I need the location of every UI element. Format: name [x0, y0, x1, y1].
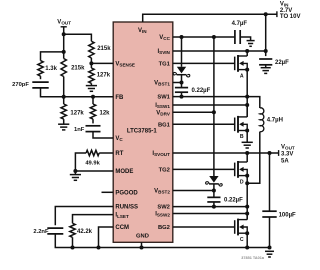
wire pin TG1 to switch A gate [173, 62, 235, 64]
svg-text:37851 TA01a: 37851 TA01a [241, 256, 265, 260]
transistor C source stub [238, 232, 247, 234]
transistor C body arrow [239, 225, 244, 230]
transistor A body-source junction [245, 68, 249, 72]
wire MODE node to ground [74, 171, 76, 175]
wire 42.2k to ground rail [72, 237, 74, 247]
wire switch B source to ground [246, 131, 248, 143]
wire VOUT branch into 215k middle [63, 52, 65, 59]
transistor B gate bar [234, 118, 236, 132]
capacitor 0.22uF (BST1) [175, 87, 188, 89]
svg-text:RUN/SS: RUN/SS [115, 205, 138, 211]
resistor 42.2k [70, 223, 75, 237]
ground (FB divider) [58, 123, 69, 125]
svg-text:VIN: VIN [138, 28, 147, 34]
wire pin RT to 49.9k [99, 152, 113, 154]
junction 1.3k branch [62, 50, 66, 54]
wire switch B drain to ISSW1 junction [246, 105, 248, 117]
svg-text:SW1: SW1 [157, 95, 170, 101]
wire 270pF to FB node [41, 88, 64, 97]
transistor B body-source link [243, 124, 247, 130]
wire pin CCM to ground rail [99, 227, 114, 248]
svg-text:4.7µH: 4.7µH [267, 118, 283, 124]
wire pin SW2 to D-C leg [173, 206, 247, 208]
svg-text:FB: FB [115, 95, 124, 101]
svg-text:BG1: BG1 [158, 122, 171, 128]
wire pin VBST2 to node [173, 190, 214, 192]
transistor A drain stub [238, 55, 247, 57]
wire 0.22uF BST2 to SW2 [213, 202, 215, 207]
transistor C gate bar [234, 220, 236, 234]
svg-text:VSENSE: VSENSE [115, 62, 135, 68]
ground (rail end) [265, 250, 274, 252]
capacitor 1nF [86, 125, 101, 127]
wire 22uF to ground [265, 65, 267, 68]
svg-text:LTC3785-1: LTC3785-1 [127, 129, 158, 135]
junction SW1 on A-B leg [245, 95, 249, 99]
svg-text:1.3k: 1.3k [45, 66, 57, 72]
wire switch A drain to ISVIN rail [246, 51, 248, 56]
junction VBST2 node [212, 189, 216, 193]
transistor C body-source junction [245, 231, 249, 235]
junction GND pin on rail [140, 246, 144, 250]
wire pin VCC to 4.7uF [173, 36, 235, 38]
junction CCM on ground rail [97, 246, 101, 250]
wire 127k to ground [90, 83, 92, 85]
svg-text:RT: RT [115, 151, 123, 157]
junction switch C source on ground rail [245, 246, 249, 250]
resistor 12k [90, 104, 95, 119]
transistor D drain stub [238, 161, 247, 163]
wire VIN vertical down to ISVIN rail [265, 14, 267, 51]
wire 4.7uF to ground [240, 37, 250, 41]
wire 12k to 1nF [92, 119, 94, 123]
diode D2 (BST2 Schottky) [209, 176, 218, 183]
wire FB node to pin FB [64, 96, 113, 98]
resistor 127k (FB to ground) [61, 104, 66, 119]
transistor C body-source link [243, 227, 247, 233]
svg-text:MODE: MODE [115, 169, 133, 175]
resistor 1.3k [38, 61, 43, 77]
svg-text:TG1: TG1 [159, 62, 171, 68]
junction rail end at 100uF [268, 246, 272, 250]
transistor C drain stub [238, 219, 247, 221]
wire inductor bottom down to SW2 link [247, 132, 260, 184]
ground (RT/MODE) [70, 174, 81, 176]
wire VCC to BST1 diode anode [181, 37, 183, 67]
wire 0.22uF BST1 to SW1 [181, 92, 183, 96]
wire switch A source down to switch B drain [246, 70, 248, 117]
wire switch C source to ground rail [246, 233, 248, 247]
node VIN terminal tick [276, 11, 278, 17]
wire switch C drain to ISSW2 junction [246, 214, 248, 220]
wire FB node into 127k [63, 97, 65, 104]
wire pin GND down to rail [141, 242, 143, 247]
transistor B channel bar [237, 116, 239, 133]
junction inductor to SW2 leg [245, 181, 249, 185]
transistor D body arrow [239, 167, 244, 172]
svg-text:ISSW1: ISSW1 [155, 103, 170, 109]
svg-text:VDRV: VDRV [156, 110, 171, 116]
wire pin MODE to ground node [75, 170, 113, 172]
transistor A body arrow [239, 61, 244, 66]
wire VOUT vertical to 1.3k branch [63, 34, 65, 52]
diode D1 (BST1 Schottky) [177, 67, 186, 74]
node VOUT terminal (top left) [61, 26, 67, 28]
svg-text:VIN: VIN [280, 2, 289, 8]
wire pin BG2 to switch C gate [173, 226, 235, 228]
wire VSENSE node to pin VSENSE [91, 62, 113, 64]
wire pin RUN/SS to 2.2nF [55, 207, 113, 226]
svg-text:VOUT: VOUT [57, 19, 71, 25]
svg-text:C: C [240, 237, 244, 243]
svg-text:100µF: 100µF [279, 212, 296, 218]
junction VCC/VDRV branch [212, 35, 216, 39]
svg-text:VBST1: VBST1 [154, 81, 170, 87]
ground (switch B source) [242, 141, 253, 143]
svg-text:PGOOD: PGOOD [115, 190, 138, 196]
wire 1nF to pin VC [93, 132, 113, 138]
transistor A gate bar [234, 57, 236, 71]
wire 1.3k to 270pF [40, 76, 42, 79]
svg-text:SW2: SW2 [157, 205, 170, 211]
junction VCC/BST1 diode branch [180, 35, 184, 39]
transistor B drain stub [238, 116, 247, 118]
wire 2.2nF to ground rail [55, 234, 72, 248]
ground (VSENSE divider) [86, 85, 97, 87]
junction VOUT/215k branch [62, 32, 66, 36]
wire pin TG2 to switch D gate [173, 168, 235, 170]
svg-text:5A: 5A [281, 158, 289, 164]
wire diode D2 to VBST2 node [213, 184, 215, 197]
svg-text:A: A [240, 73, 244, 79]
wire pin VDRV to VCC leg [173, 111, 214, 113]
svg-text:BG2: BG2 [158, 225, 170, 231]
wire FB node into 12k [92, 97, 94, 104]
svg-text:VOUT: VOUT [281, 144, 295, 150]
svg-text:4.7µF: 4.7µF [232, 21, 248, 27]
transistor A body-source link [243, 63, 247, 69]
transistor A source stub [238, 69, 247, 71]
svg-text:215k: 215k [97, 46, 111, 52]
transistor B body-source junction [245, 129, 249, 133]
node VOUT terminal tick (right) [278, 150, 280, 156]
transistor C channel bar [237, 219, 239, 236]
svg-text:42.2k: 42.2k [77, 229, 93, 235]
resistor 215k (middle, VOUT to FB) [61, 59, 66, 77]
wire pin ISVOUT to VOUT terminal [173, 152, 279, 154]
wire VOUT terminal down to divider [63, 27, 65, 34]
svg-text:1nF: 1nF [74, 127, 85, 133]
transistor D gate bar [234, 163, 236, 177]
wire pin ISVIN to VIN node [173, 50, 266, 52]
junction ISSW2 on D-C leg [245, 212, 249, 216]
svg-text:D: D [240, 179, 244, 185]
svg-text:127k: 127k [97, 72, 111, 78]
capacitor 0.22uF (BST2) [207, 196, 220, 198]
junction FB node right (12k branch) [91, 95, 95, 99]
wire pin ISSW2 to D-C leg [173, 213, 247, 215]
svg-text:0.22µF: 0.22µF [224, 198, 243, 204]
ground (22uF) [261, 67, 271, 69]
capacitor 270pF [32, 81, 48, 83]
wire 127k FB to ground [63, 119, 65, 124]
svg-text:215k: 215k [71, 65, 85, 71]
capacitor 2.2nF [47, 227, 63, 229]
wire diode D1 to VBST1 node [181, 75, 183, 88]
wire switch D drain to VOUT rail [246, 153, 248, 162]
resistor 49.9k [86, 150, 99, 155]
wire branch to 1.3k [41, 52, 64, 61]
junction 0.22uF on SW1 rail [180, 95, 184, 99]
svg-text:VBST2: VBST2 [154, 189, 170, 195]
svg-text:12k: 12k [100, 110, 111, 116]
svg-text:ISSW2: ISSW2 [155, 212, 170, 218]
svg-text:0.22µF: 0.22µF [192, 88, 211, 94]
svg-text:TO 10V: TO 10V [280, 14, 301, 20]
svg-text:CCM: CCM [115, 225, 129, 231]
junction VDRV on VCC leg [212, 110, 216, 114]
junction 100uF on VOUT rail [268, 151, 272, 155]
wire pin BG1 to switch B gate [173, 123, 235, 125]
transistor D body-source junction [245, 174, 249, 178]
wire pin VIN up and right to VIN supply [143, 14, 277, 22]
junction RT/MODE ground node [73, 169, 77, 173]
inductor L1 4.7uH [260, 108, 264, 132]
resistor 127k (VSENSE divider) [89, 68, 94, 83]
wire pin SW1 to inductor corner [173, 97, 260, 108]
ground rail (bottom) [73, 247, 270, 249]
svg-text:127k: 127k [70, 110, 84, 116]
junction switch D drain on VOUT rail [245, 151, 249, 155]
capacitor 100uF [262, 210, 276, 212]
svg-text:ILSET: ILSET [115, 213, 129, 219]
wire VCC leg vertical (VCC to BST2 diode) [213, 37, 215, 176]
junction VIN supply node [264, 12, 268, 16]
svg-text:ISVIN: ISVIN [157, 49, 170, 55]
svg-text:270pF: 270pF [12, 82, 29, 88]
wire 100uF to ground rail [269, 217, 271, 248]
junction 42.2k on ground rail [71, 246, 75, 250]
capacitor 22uF [259, 58, 272, 60]
svg-text:B: B [240, 134, 244, 140]
svg-text:TG2: TG2 [159, 168, 170, 174]
svg-text:3.3V: 3.3V [281, 151, 293, 157]
capacitor 4.7uF [234, 30, 236, 44]
svg-text:49.9k: 49.9k [85, 161, 100, 167]
wire 215k middle to FB node [63, 77, 65, 97]
svg-text:ISVOUT: ISVOUT [152, 151, 170, 157]
junction switch A drain on ISVIN rail [245, 49, 249, 53]
transistor D body-source link [243, 169, 247, 175]
junction FB node left [62, 95, 66, 99]
wire pin ILSET to 42.2k [73, 215, 114, 224]
junction ISSW1 on A-B leg [245, 103, 249, 107]
wire pin ISSW1 to A-B leg [173, 104, 247, 106]
wire switch D source down to switch C drain [246, 176, 248, 220]
wire 49.9k to MODE corner [75, 153, 86, 171]
resistor 215k (upper, to VSENSE) [89, 41, 94, 58]
svg-text:22µF: 22µF [275, 60, 289, 66]
transistor D source stub [238, 175, 247, 177]
IC U1 LTC3785-1 body [113, 22, 173, 242]
transistor B source stub [238, 130, 247, 132]
svg-text:VC: VC [115, 136, 123, 142]
svg-text:2.7V: 2.7V [280, 8, 292, 14]
transistor B body arrow [239, 122, 244, 127]
wire 215k to VSENSE node [90, 58, 92, 68]
svg-text:2.2nF: 2.2nF [33, 229, 49, 235]
ground (4.7uF) [247, 40, 255, 42]
transistor A channel bar [237, 55, 239, 72]
transistor D channel bar [237, 161, 239, 178]
junction VSENSE node [89, 61, 93, 65]
junction SW2 on D-C leg [245, 205, 249, 209]
junction 22uF on ISVIN rail [264, 49, 268, 53]
junction VBST1 node [180, 81, 184, 85]
svg-text:GND: GND [136, 234, 149, 240]
svg-text:VCC: VCC [159, 35, 170, 41]
wire pin PGOOD stub (open) [102, 191, 114, 193]
wire VOUT node to right 215k [64, 34, 92, 41]
wire VOUT rail down to 100uF [269, 153, 271, 211]
wire pin VBST1 to node [173, 82, 182, 84]
junction 0.22uF on SW2 rail [212, 205, 216, 209]
wire 22uF top stub [265, 51, 267, 56]
